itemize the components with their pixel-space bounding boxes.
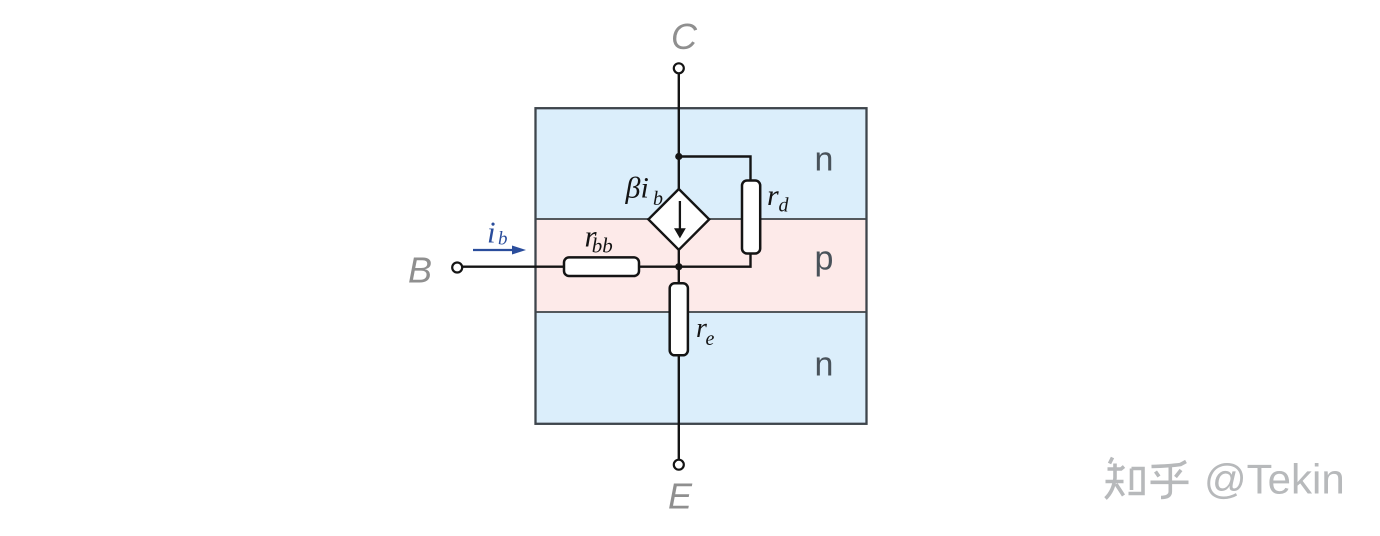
- junction separator line n/p: [536, 218, 867, 220]
- svg-text:b: b: [498, 228, 508, 249]
- wire rbb to base node: [639, 266, 679, 268]
- current source arrow (downward): [679, 201, 681, 230]
- svg-text:@Tekin: @Tekin: [1204, 456, 1345, 503]
- terminal B circle: [452, 263, 462, 273]
- resistor rd: [742, 181, 760, 254]
- svg-text:e: e: [706, 328, 715, 350]
- watermark zhihu logo 知 (drawn strokes): [1106, 458, 1144, 499]
- svg-text:C: C: [671, 16, 698, 57]
- node base junction: [675, 263, 682, 270]
- svg-text:r: r: [767, 179, 779, 212]
- transistor body n region (bottom): [537, 312, 866, 423]
- terminal C circle: [674, 63, 684, 73]
- wire re to E terminal: [678, 355, 680, 459]
- svg-text:b: b: [653, 188, 663, 210]
- wire C terminal down to collector node: [678, 73, 680, 156]
- node collector junction: [675, 153, 682, 160]
- junction separator line p/n: [536, 311, 867, 313]
- terminal E circle: [674, 460, 684, 470]
- resistor re: [670, 283, 688, 355]
- svg-text:E: E: [668, 476, 693, 517]
- wire collector node to diamond top: [678, 157, 680, 190]
- wire B terminal to rbb: [463, 266, 565, 268]
- wire collector node to rd top: [679, 157, 751, 182]
- controlled current source diamond: [648, 189, 709, 250]
- svg-text:d: d: [779, 195, 790, 217]
- transistor body n region (top): [537, 109, 866, 219]
- watermark zhihu logo 乎 (drawn strokes): [1151, 462, 1189, 498]
- transistor body outline: [536, 108, 867, 424]
- resistor rbb: [564, 257, 639, 276]
- transistor body p region (middle): [537, 219, 866, 312]
- svg-text:bb: bb: [592, 233, 613, 257]
- svg-text:B: B: [408, 250, 432, 291]
- wire base node to re: [678, 267, 680, 284]
- svg-text:n: n: [815, 141, 834, 179]
- current arrow ib (blue): [473, 249, 514, 251]
- svg-text:βi: βi: [625, 172, 649, 205]
- wire rd bottom to base node: [679, 254, 751, 267]
- svg-text:p: p: [815, 240, 834, 278]
- svg-text:n: n: [815, 345, 834, 383]
- wire diamond bottom to base node: [678, 250, 680, 267]
- svg-text:i: i: [487, 215, 496, 250]
